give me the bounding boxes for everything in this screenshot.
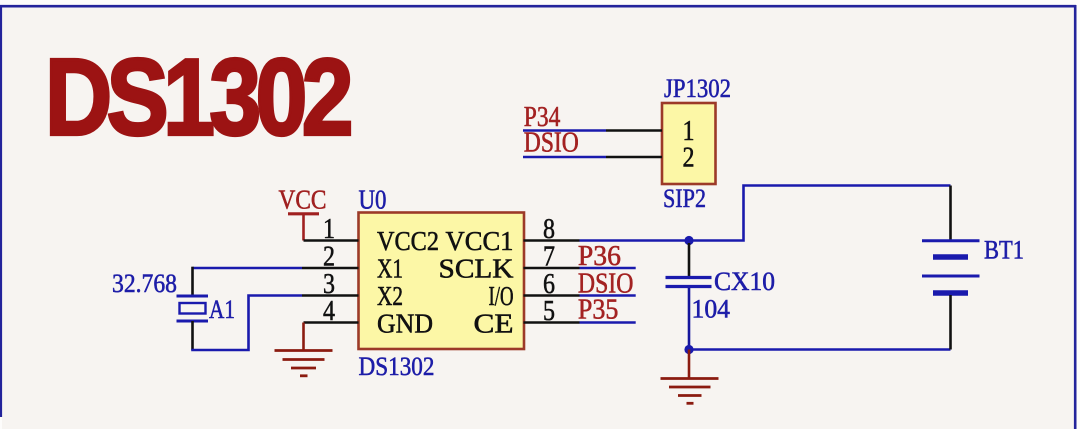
svg-text:4: 4 [323, 296, 335, 327]
wire pin8 to junction [580, 239, 690, 242]
svg-text:A1: A1 [209, 295, 235, 324]
pin 2 [302, 242, 359, 273]
capacitor CX10 [666, 243, 712, 350]
wire crystal to pin3 [191, 296, 302, 351]
svg-text:U0: U0 [359, 184, 387, 214]
battery BT1 [922, 186, 980, 350]
svg-text:8: 8 [543, 214, 555, 245]
crystal top lead [191, 267, 194, 295]
svg-text:1: 1 [323, 214, 335, 245]
svg-text:BT1: BT1 [984, 236, 1024, 265]
svg-text:104: 104 [692, 295, 731, 324]
svg-text:DS1302: DS1302 [45, 37, 350, 159]
svg-text:7: 7 [543, 242, 555, 273]
svg-text:X2: X2 [377, 281, 403, 311]
ground below capacitor [661, 350, 719, 404]
svg-text:I/O: I/O [489, 281, 514, 311]
JP pin 1 [606, 116, 695, 147]
pin 1 [304, 214, 359, 245]
junction bottom [684, 345, 693, 354]
svg-text:GND: GND [377, 309, 433, 339]
svg-text:DS1302: DS1302 [359, 352, 435, 381]
wire net P36 [580, 267, 636, 270]
svg-text:JP1302: JP1302 [664, 74, 731, 103]
svg-text:X1: X1 [377, 254, 403, 284]
svg-text:P35: P35 [578, 295, 619, 326]
svg-text:2: 2 [323, 242, 335, 273]
svg-text:VCC: VCC [279, 185, 327, 215]
wire net P34 [523, 129, 606, 132]
connector JP1302 body [662, 103, 716, 184]
svg-text:32.768: 32.768 [112, 269, 177, 298]
wire net P35 [580, 321, 636, 324]
svg-text:5: 5 [543, 296, 555, 327]
crystal bottom lead [191, 321, 194, 350]
pin 4 [304, 296, 359, 327]
svg-text:2: 2 [683, 143, 695, 174]
pin 3 [302, 269, 359, 300]
wire bottom return [689, 348, 951, 351]
IC U0 body [359, 213, 525, 350]
wire junction to riser [689, 186, 951, 241]
svg-text:CE: CE [474, 309, 514, 339]
pin 5 [524, 296, 580, 327]
svg-text:SIP2: SIP2 [663, 184, 706, 213]
pin 8 [524, 214, 580, 245]
wire net DSIO [580, 294, 636, 297]
svg-text:DSIO: DSIO [524, 128, 579, 159]
power flag VCC [288, 214, 319, 241]
svg-text:SCLK: SCLK [439, 254, 515, 284]
wire net DSIO top [523, 156, 606, 159]
crystal A1 [177, 296, 209, 321]
ground below pin 4 [275, 323, 333, 376]
JP pin 2 [606, 143, 695, 174]
svg-text:VCC2: VCC2 [377, 226, 439, 256]
wire pin2 to crystal [193, 267, 303, 270]
junction top [684, 236, 693, 245]
svg-text:CX10: CX10 [714, 267, 775, 296]
pin 7 [524, 242, 580, 273]
pin 6 [524, 269, 580, 300]
svg-text:VCC1: VCC1 [446, 226, 514, 256]
